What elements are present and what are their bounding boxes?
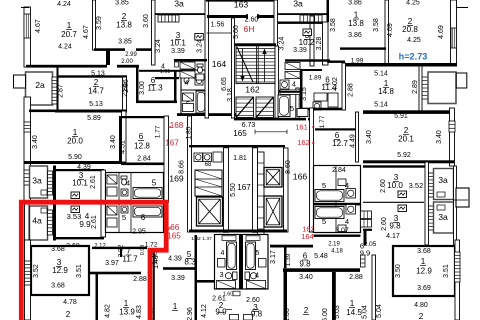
svg-text:4.18: 4.18: [331, 249, 343, 255]
svg-text:5.48: 5.48: [314, 253, 328, 260]
elevator shaft left: [197, 197, 223, 226]
stair diagonal: [237, 47, 253, 82]
wall top of room 10.2: [278, 22, 323, 24]
svg-text:3.68: 3.68: [417, 248, 431, 255]
svg-text:0.98: 0.98: [140, 245, 146, 256]
wall v brc apt: [332, 272, 336, 320]
svg-text:2.88: 2.88: [133, 276, 147, 283]
wall top rooms 10.0: [363, 165, 426, 167]
svg-text:8.3: 8.3: [184, 258, 196, 267]
cluster B divider h: [314, 203, 361, 206]
red tick 161: [312, 126, 315, 128]
wall stub below cluster B: [363, 229, 372, 231]
svg-text:4.67: 4.67: [83, 25, 90, 39]
svg-text:1.77: 1.77: [155, 125, 162, 138]
bathroom cluster B outline: [314, 166, 361, 233]
svg-text:3.68: 3.68: [51, 246, 65, 253]
svg-text:9.9: 9.9: [215, 308, 227, 317]
exterior wall left middle: [24, 97, 31, 202]
radiator 9.8: [398, 205, 407, 212]
bathroom cluster C outline: [215, 235, 269, 290]
svg-text:3.17: 3.17: [270, 250, 277, 264]
svg-text:20.1: 20.1: [398, 135, 414, 144]
svg-text:13.9: 13.9: [119, 308, 135, 317]
svg-text:3.40: 3.40: [32, 135, 39, 149]
svg-text:5.60: 5.60: [233, 25, 240, 39]
washer box tl: [180, 62, 195, 69]
apt168 bathroom outline: [181, 70, 207, 114]
svg-text:4.25: 4.25: [407, 37, 421, 44]
svg-text:2.88: 2.88: [348, 83, 355, 97]
wall between 10.0 and 9.8: [363, 201, 424, 203]
wall bottom room 11.3: [136, 101, 177, 104]
window strip 1a: [421, 77, 428, 99]
wall right of room 20.0: [122, 111, 127, 162]
svg-text:3.68: 3.68: [51, 283, 65, 290]
svg-text:12.9: 12.9: [52, 266, 68, 275]
entrance stair hatch right: [300, 15, 322, 22]
wall mid room 8.3: [163, 267, 197, 270]
dim tick a: [254, 130, 256, 135]
svg-text:162: 162: [245, 85, 260, 95]
svg-text:2.00: 2.00: [121, 59, 133, 65]
washer mid-right: [285, 63, 300, 70]
toilet A: [121, 176, 127, 179]
right entrance protrusion: [456, 188, 469, 207]
bath divider mid-right: [279, 91, 300, 93]
svg-text:4: 4: [161, 64, 165, 71]
svg-text:1.60: 1.60: [223, 292, 234, 298]
svg-text:2.60: 2.60: [380, 179, 387, 193]
balcony 2a: [26, 72, 53, 105]
cluster B divider v upper: [335, 166, 337, 203]
bathtub C left: [227, 242, 237, 270]
svg-text:3.51: 3.51: [76, 264, 83, 278]
wall v right of red jog: [153, 252, 155, 320]
window 3a left: [48, 171, 53, 195]
svg-text:3.24: 3.24: [197, 39, 204, 53]
svg-text:4.78: 4.78: [63, 299, 77, 306]
sink: [203, 153, 212, 162]
exterior wall left bottom: [25, 240, 31, 320]
box beside sinks: [213, 152, 222, 162]
wall between rooms 20.7 and 13.8: [93, 0, 96, 50]
box B low: [338, 225, 346, 232]
wall left of room 167: [224, 148, 229, 233]
toilet apt168: [184, 74, 190, 77]
red boundary overlay polyline: [21, 202, 166, 320]
wall bottom of top-left apt room 3: [174, 59, 207, 62]
wall top of room 20.0: [29, 110, 123, 113]
corridor south wall top-left apartment: [26, 65, 107, 68]
svg-text:2.88: 2.88: [349, 274, 363, 281]
box B up: [338, 179, 346, 186]
svg-text:14.5: 14.5: [346, 308, 362, 317]
svg-text:168: 168: [170, 121, 184, 130]
corridor north wall (y=114): [177, 113, 245, 116]
svg-text:4.39: 4.39: [77, 164, 91, 171]
wall below room 10.2: [285, 59, 330, 61]
wall bottom rooms 20.8/14.8: [345, 63, 457, 67]
svg-text:20.7: 20.7: [61, 30, 77, 39]
storage boxes with diagonals left: [195, 170, 222, 196]
duct box apt161: [297, 109, 308, 117]
svg-text:3a: 3a: [174, 0, 184, 9]
wall right of room 167: [253, 148, 258, 233]
svg-text:2.95: 2.95: [132, 229, 146, 236]
wall top bottom-mid apt: [92, 247, 147, 249]
svg-text:68: 68: [205, 162, 212, 168]
svg-text:3.39: 3.39: [293, 47, 307, 54]
wall below tl bath: [155, 77, 179, 79]
sink mid-right: [280, 80, 289, 89]
apt168 bath divider h: [181, 89, 207, 91]
svg-text:2.60: 2.60: [381, 217, 388, 231]
exterior wall right, room 20.8: [451, 0, 457, 64]
svg-text:3.40: 3.40: [299, 274, 313, 281]
wall v left of cluster C: [195, 235, 198, 320]
svg-text:6H: 6H: [243, 24, 254, 34]
protrusion line: [453, 199, 468, 201]
svg-text:3.24: 3.24: [155, 39, 162, 53]
corridor east wall: [310, 108, 314, 232]
wall right of room 10.2: [323, 22, 329, 65]
svg-text:5.89: 5.89: [87, 115, 101, 122]
svg-text:2: 2: [419, 312, 424, 320]
svg-text:3.07: 3.07: [335, 228, 349, 235]
svg-text:20.8: 20.8: [402, 25, 418, 34]
wall below corridor end: [270, 245, 313, 248]
svg-text:3.40: 3.40: [110, 135, 117, 149]
wall v to y244: [364, 231, 367, 245]
door jamb box tl: [175, 62, 179, 67]
cluster A divider horizontal: [106, 202, 164, 204]
svg-text:12.9: 12.9: [416, 267, 432, 276]
balcony 3a right upper: [434, 169, 454, 200]
radiator 10.0: [398, 191, 407, 198]
wall right of 14.8: [419, 66, 422, 111]
svg-text:11.7: 11.7: [122, 255, 138, 264]
svg-text:3.40: 3.40: [366, 130, 373, 144]
svg-text:5.13: 5.13: [89, 101, 103, 108]
wall bottom room 12.8: [121, 163, 164, 166]
exterior wall right at 20.1: [450, 108, 455, 166]
toilet C left: [233, 272, 238, 280]
window room 20.0 upper: [24, 122, 31, 132]
red tick 166: [169, 227, 172, 229]
svg-text:3a: 3a: [293, 0, 303, 9]
svg-text:2.19: 2.19: [328, 242, 340, 248]
elevator shaft right upper: [264, 168, 282, 188]
svg-text:5.91: 5.91: [394, 113, 408, 120]
svg-text:2.96: 2.96: [187, 307, 194, 320]
svg-text:3.40: 3.40: [436, 130, 443, 144]
svg-text:4.80: 4.80: [414, 302, 428, 309]
svg-text:2.86: 2.86: [123, 79, 130, 93]
svg-text:5.03: 5.03: [334, 305, 341, 319]
bathtub B upper: [315, 190, 344, 202]
wall right of rooms 10.0/9.8: [425, 162, 429, 245]
tick right top: [456, 7, 468, 9]
window bottom-left: [25, 261, 31, 285]
window room 20.8: [451, 28, 457, 48]
room 163 bottom wall: [207, 15, 276, 18]
svg-text:162: 162: [297, 138, 310, 147]
svg-text:11.3: 11.3: [147, 84, 163, 93]
bathtub B lower: [315, 207, 344, 219]
svg-text:5: 5: [290, 104, 294, 113]
svg-text:3.28: 3.28: [316, 37, 323, 51]
door jamb 163 a: [246, 14, 248, 19]
svg-text:167: 167: [165, 139, 179, 148]
corridor wall y=118: [234, 118, 306, 121]
svg-text:2: 2: [66, 310, 71, 319]
svg-text:2.87: 2.87: [58, 84, 65, 98]
svg-text:9.8: 9.8: [251, 310, 263, 319]
red tick 168: [169, 126, 172, 128]
svg-text:4: 4: [126, 179, 130, 188]
wall tick top-left: [21, 7, 29, 9]
svg-text:12.7: 12.7: [332, 139, 348, 148]
bathtub apt168: [196, 91, 206, 113]
svg-text:3.00: 3.00: [139, 81, 146, 95]
svg-text:9.8: 9.8: [299, 260, 311, 269]
balcony 4a left: [30, 206, 48, 240]
door jamb 163 b: [257, 14, 259, 19]
washer C left: [218, 259, 226, 268]
sink A: [121, 189, 128, 196]
svg-text:5.50: 5.50: [230, 183, 237, 197]
lift lobby east wall: [284, 148, 289, 232]
sink B up: [346, 189, 356, 199]
wall v corridor 163/164: [284, 247, 287, 268]
wall left room 12.8: [119, 116, 122, 163]
wall between balconies and rooms 3/4: [53, 166, 56, 241]
svg-text:1.00: 1.00: [284, 308, 291, 320]
svg-text:4: 4: [221, 250, 225, 257]
sink A2: [121, 206, 128, 213]
balcony 2a protrusion: [14, 75, 26, 88]
wall left of room 14.7: [57, 67, 59, 110]
wall v apt161 west: [300, 69, 303, 109]
svg-text:2.05: 2.05: [364, 241, 377, 248]
bathtub A upper: [133, 188, 162, 199]
radiator near room 3 top-left: [195, 34, 204, 41]
svg-text:3.58: 3.58: [373, 18, 380, 32]
svg-text:2.84: 2.84: [137, 156, 151, 163]
svg-text:2.61: 2.61: [90, 175, 97, 189]
wall right of room 11.3: [174, 70, 177, 103]
wall right 3a corridor: [310, 16, 314, 66]
svg-text:2.99: 2.99: [125, 52, 137, 58]
svg-text:1.81: 1.81: [233, 155, 247, 162]
room 164 east wall: [232, 18, 235, 118]
svg-text:4.25: 4.25: [406, 0, 420, 7]
toilet top-left apt: [197, 64, 203, 67]
balcony 3a right lower: [434, 202, 454, 233]
svg-text:2.89: 2.89: [412, 80, 419, 94]
svg-text:5.14: 5.14: [374, 71, 388, 78]
exterior wall left at 4a: [25, 204, 30, 240]
room 1a outline: [428, 72, 456, 104]
hatch box r2: [437, 205, 445, 210]
svg-text:4: 4: [185, 80, 189, 87]
svg-text:4.83: 4.83: [136, 305, 143, 319]
room 1 (12.9) bottom-right outline: [393, 246, 455, 296]
window small right-bottom: [361, 255, 366, 267]
svg-text:4.17: 4.17: [386, 233, 400, 240]
wall bottom room 4 (9.9): [56, 237, 104, 239]
cluster B bottom wall: [314, 235, 361, 237]
svg-text:3.86: 3.86: [348, 32, 362, 39]
3a left bottom wall: [155, 13, 205, 15]
svg-text:3.52: 3.52: [409, 181, 424, 190]
wall bottom of room 20.0: [24, 161, 122, 164]
svg-text:3a: 3a: [32, 176, 42, 186]
svg-text:4.12: 4.12: [201, 304, 208, 318]
svg-text:169: 169: [169, 174, 184, 184]
svg-text:3.51: 3.51: [443, 264, 450, 278]
svg-text:5.90: 5.90: [68, 154, 82, 161]
hatch box r1: [437, 192, 445, 197]
svg-text:3.58: 3.58: [330, 18, 337, 32]
wall bottom room 13.8r: [340, 47, 386, 49]
wall bottom of room 13.8 left part: [94, 48, 125, 51]
svg-text:2.61: 2.61: [91, 215, 98, 229]
svg-text:10.0: 10.0: [387, 181, 403, 190]
svg-text:5.14: 5.14: [374, 102, 388, 109]
wall top bottom-right-center apt: [283, 268, 360, 272]
svg-text:8.60: 8.60: [285, 160, 292, 174]
svg-text:165: 165: [233, 129, 247, 138]
svg-text:3.15: 3.15: [301, 87, 308, 101]
svg-text:1.37: 1.37: [202, 236, 212, 242]
bathtub apt161 upper: [278, 95, 290, 117]
wall stub near 1.99: [327, 61, 345, 63]
top-right protrusion: [456, 73, 467, 88]
svg-text:3.39: 3.39: [171, 275, 185, 282]
svg-text:3a: 3a: [438, 212, 448, 222]
stair center divider: [256, 46, 258, 84]
svg-text:5: 5: [122, 213, 126, 222]
svg-text:4.82: 4.82: [105, 304, 112, 318]
underline 9.9 C: [226, 309, 232, 311]
svg-text:164: 164: [212, 59, 227, 69]
entrance stair hatch left: [158, 15, 179, 22]
radiator room 4 left: [71, 206, 80, 213]
toilet C right: [245, 272, 250, 280]
bath top wall apt161: [279, 90, 300, 92]
radiator room 10.2: [303, 29, 312, 36]
corridor south wall segment 2: [117, 65, 139, 68]
svg-text:163: 163: [234, 0, 249, 10]
washer C right: [259, 259, 267, 268]
wall right of rooms 3/4: [101, 170, 106, 237]
lift lobby west wall: [188, 116, 192, 232]
wall top of apt168 bath strip: [139, 70, 181, 72]
svg-text:6.73: 6.73: [242, 122, 256, 129]
svg-text:10.2: 10.2: [299, 38, 315, 47]
svg-text:9.9: 9.9: [360, 249, 371, 258]
svg-text:2.84: 2.84: [332, 167, 346, 174]
wall top room 3 (10.1): [56, 169, 104, 171]
stair diag low right: [257, 98, 274, 118]
washer A2: [107, 187, 117, 196]
svg-text:3: 3: [219, 270, 223, 279]
svg-text:3.50: 3.50: [395, 264, 402, 278]
stair up arrow line: [264, 52, 266, 82]
window 3a r1: [429, 173, 434, 197]
svg-text:3.39: 3.39: [171, 48, 185, 55]
svg-text:1: 1: [173, 302, 178, 311]
svg-text:6: 6: [141, 213, 146, 222]
window level 3a: [24, 170, 31, 185]
svg-text:1.77: 1.77: [319, 115, 326, 128]
red tick 163: [312, 228, 315, 230]
small box tl: [196, 74, 204, 80]
stair top wall: [234, 43, 276, 46]
cluster A divider v1: [118, 173, 120, 233]
svg-text:4.39: 4.39: [168, 256, 182, 263]
svg-text:3.97: 3.97: [105, 260, 119, 267]
svg-text:5: 5: [322, 217, 326, 226]
svg-text:3.18: 3.18: [227, 88, 234, 102]
exterior wall right bottom: [455, 240, 460, 320]
wall left of room 11.3: [136, 67, 139, 102]
svg-text:13.8: 13.8: [116, 21, 132, 30]
shelf C right: [246, 236, 260, 241]
sink C left: [217, 281, 236, 289]
bathroom cluster A outline: [106, 173, 164, 233]
svg-text:165: 165: [167, 232, 181, 241]
window bottom-right: [455, 252, 461, 282]
corridor wall y=108 right: [300, 108, 345, 111]
washer A3: [107, 206, 117, 215]
svg-text:1.56: 1.56: [211, 22, 225, 29]
fixture row mid-right: [280, 90, 300, 95]
svg-text:5.92: 5.92: [397, 152, 411, 159]
svg-text:3.59: 3.59: [96, 16, 103, 30]
cluster B divider v lower: [335, 205, 337, 232]
core east wall lower: [275, 46, 279, 118]
window room 20.1: [449, 121, 455, 132]
bath east wall apt161: [296, 88, 299, 119]
staircase 162 upper flight: [236, 46, 275, 84]
wall left of 12.9 r: [372, 255, 376, 320]
svg-text:3.52: 3.52: [33, 264, 40, 278]
wall left room 13.9: [96, 274, 99, 320]
wall left of 14.8: [342, 63, 346, 110]
cluster C center wall: [239, 235, 243, 290]
room 164 top line: [207, 32, 232, 34]
small box below C: [233, 291, 240, 296]
staircase lower flights: [236, 97, 254, 118]
svg-text:4.67: 4.67: [35, 19, 42, 33]
wall right of room 13.8: [152, 0, 156, 65]
svg-text:4.24: 4.24: [58, 44, 72, 51]
sink 161: [313, 102, 321, 110]
bathtub A lower: [133, 206, 162, 217]
svg-text:9.9: 9.9: [79, 220, 91, 229]
door jamb stub wall: [106, 50, 110, 65]
stair center divider 2: [257, 46, 259, 84]
svg-text:3.85: 3.85: [115, 0, 129, 7]
svg-text:5.00: 5.00: [322, 308, 329, 320]
shelf C left: [222, 236, 236, 241]
svg-text:4.69: 4.69: [387, 23, 394, 37]
svg-text:2.60: 2.60: [245, 17, 259, 24]
svg-text:1: 1: [421, 257, 426, 266]
